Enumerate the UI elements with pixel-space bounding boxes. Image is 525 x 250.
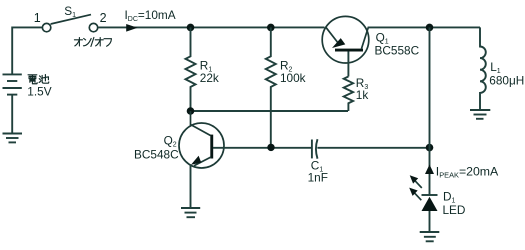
- junction: rail / R2: [267, 24, 275, 32]
- wire: LED branch from rail to LED: [429, 27, 431, 194]
- switch S1 terminal 2: [89, 23, 97, 31]
- svg-text:100k: 100k: [280, 71, 306, 85]
- LED D1 cathode bar: [422, 194, 438, 196]
- wire: battery positive to switch terminal 1: [12, 27, 42, 74]
- svg-text:BC548C: BC548C: [134, 147, 179, 161]
- transistor Q2 BC548C body: [179, 123, 224, 168]
- junction: node B / LED branch: [426, 144, 434, 152]
- ground (LED): [420, 232, 440, 241]
- svg-text:680μH: 680μH: [489, 74, 524, 88]
- inductor L1 680uH: [480, 27, 486, 109]
- ground (L1): [470, 110, 490, 119]
- Q2 collector lead: [191, 111, 211, 136]
- ground (Q2): [181, 208, 200, 217]
- label 電池: [28, 75, 37, 84]
- Q1 base bar: [335, 49, 363, 52]
- Q2 emitter lead: [194, 157, 211, 166]
- wire: top rail from Q1 collector to L1: [368, 26, 480, 28]
- switch S1 blade: [51, 15, 91, 24]
- svg-text:Q2: Q2: [164, 134, 177, 149]
- switch S1 terminal 1: [42, 23, 50, 31]
- svg-text:22k: 22k: [200, 71, 219, 85]
- junction: node A / Q2 collector: [187, 107, 195, 115]
- transistor Q1 BC558C body: [322, 16, 369, 63]
- Q1 emitter arrow (PNP): [332, 38, 345, 48]
- svg-text:IDC=10mA: IDC=10mA: [125, 8, 176, 23]
- junction: rail / R1: [187, 24, 195, 32]
- LED light arrow 1: [410, 175, 422, 188]
- Q1 emitter lead: [326, 27, 339, 43]
- svg-text:S1: S1: [64, 4, 76, 19]
- resistor R3 1k: [344, 77, 353, 112]
- node A: wire from R1 bottom to R3 bottom: [191, 110, 349, 112]
- node B: wire from C1 to LED branch: [317, 147, 429, 149]
- svg-text:1: 1: [34, 11, 41, 25]
- svg-text:1nF: 1nF: [308, 171, 328, 185]
- wire: top rail from switch to Q1 emitter: [98, 26, 325, 28]
- current arrow IPEAK: [425, 165, 434, 175]
- resistor R2 100k: [266, 27, 276, 147]
- svg-text:1k: 1k: [356, 88, 369, 102]
- battery BT1 (電池 1.5V) plates: [3, 74, 22, 94]
- resistor R1 22k: [186, 27, 196, 111]
- junction: node B / R2 bottom: [267, 144, 274, 151]
- svg-text:BC558C: BC558C: [375, 44, 420, 58]
- Q1 collector lead: [362, 27, 369, 48]
- junction: rail / LED branch: [426, 24, 434, 32]
- Q2 base bar: [210, 135, 213, 159]
- capacitor C1 right plate: [316, 139, 318, 159]
- wire: LED to ground: [429, 211, 431, 232]
- LED light arrow 2: [409, 188, 421, 201]
- svg-text:1.5V: 1.5V: [27, 84, 51, 98]
- current arrow IDC: [126, 24, 137, 32]
- ground (battery): [3, 134, 23, 143]
- Q2 emitter arrow (NPN): [191, 156, 201, 165]
- capacitor C1 left plate: [311, 140, 313, 159]
- LED D1 triangle: [422, 197, 438, 211]
- node B: wire from Q2 base to C1: [213, 147, 312, 149]
- svg-text:2: 2: [100, 11, 107, 25]
- wire: Q1 base to R3: [347, 51, 349, 76]
- label オン/オフ: [74, 38, 82, 46]
- svg-text:LED: LED: [443, 203, 466, 217]
- wire: Q2 emitter to ground: [190, 165, 192, 208]
- wire: battery negative to ground: [11, 95, 13, 133]
- svg-text:IPEAK=20mA: IPEAK=20mA: [436, 165, 499, 180]
